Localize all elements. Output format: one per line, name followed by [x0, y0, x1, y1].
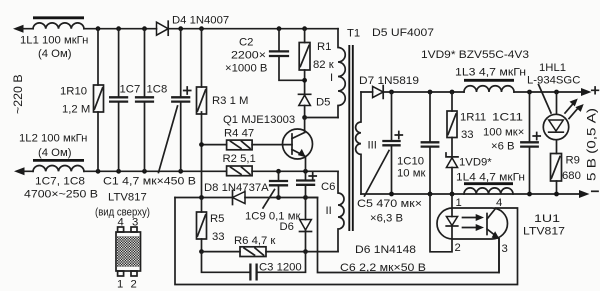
svg-text:4: 4 [496, 197, 502, 209]
capacitor C3 loop [202, 252, 306, 273]
svg-text:5 В (0,5 А): 5 В (0,5 А) [585, 108, 599, 181]
capacitor C1 [180, 29, 182, 172]
resistor R6 [240, 247, 266, 257]
svg-text:×1000 В: ×1000 В [225, 63, 267, 75]
C5 plus sign [395, 132, 402, 139]
svg-text:1L4 4,7 мкГн: 1L4 4,7 мкГн [456, 172, 525, 184]
C5 leader line [365, 151, 390, 197]
svg-text:D7 1N5819: D7 1N5819 [359, 75, 419, 87]
svg-text:D8 1N4737A: D8 1N4737A [204, 182, 269, 194]
node R5 bottom [199, 249, 204, 254]
svg-text:680: 680 [562, 170, 581, 182]
1HL1 leader line [539, 85, 552, 114]
svg-text:R1: R1 [317, 41, 331, 53]
node top of 1R10 [96, 26, 101, 31]
node 1VD9 bottom opto pin1 [450, 192, 455, 197]
svg-text:1R11: 1R11 [460, 112, 486, 124]
svg-text:D5 UF4007: D5 UF4007 [372, 27, 434, 39]
svg-text:C6: C6 [321, 181, 335, 193]
opto LED [430, 194, 452, 252]
LED 1HL1 [556, 92, 558, 154]
node D6 bottom [303, 249, 308, 254]
svg-text:R5: R5 [210, 213, 224, 225]
arrow plus output [581, 88, 592, 96]
svg-text:1L1 100 мкГн: 1L1 100 мкГн [20, 35, 88, 47]
1L1 core bar [33, 16, 84, 19]
transformer T1 winding I [338, 29, 345, 118]
svg-text:C1 4,7 мк×450 В: C1 4,7 мк×450 В [103, 176, 196, 188]
node bottom rail 1C9 top [276, 169, 281, 174]
LED arrows [565, 102, 575, 114]
svg-text:1C11: 1C11 [492, 112, 523, 124]
svg-text:D6 1N4148: D6 1N4148 [355, 244, 416, 256]
node top of R1 [302, 26, 307, 31]
wire D8 row [175, 197, 318, 199]
svg-text:×6 В: ×6 В [491, 141, 515, 153]
node R9 bottom [554, 192, 559, 197]
C6 plus sign [309, 173, 316, 180]
transformer T1 winding II [338, 171, 344, 251]
svg-text:2: 2 [131, 279, 137, 291]
svg-text:82 к: 82 к [313, 59, 334, 71]
resistor 1R11 [451, 92, 453, 156]
wire bottom mains rail left arrow [14, 167, 25, 175]
svg-text:1R10: 1R10 [60, 86, 87, 98]
svg-text:33: 33 [212, 231, 225, 243]
wire R6 row [202, 251, 339, 253]
svg-text:III: III [368, 140, 377, 152]
node R1 bottom / C2 [302, 78, 307, 83]
capacitor 1C8 [144, 29, 146, 172]
package pin 1 [118, 271, 124, 276]
svg-text:R9: R9 [566, 155, 580, 167]
wire node to winding I [305, 117, 338, 119]
capacitor 1C10 [429, 92, 431, 194]
wire C6 node to opto emitter loop [306, 198, 500, 273]
resistor R4 [202, 144, 293, 146]
svg-text:L-934SGC: L-934SGC [527, 75, 580, 87]
svg-text:1C10: 1C10 [397, 156, 424, 168]
svg-text:D5: D5 [316, 97, 330, 109]
svg-text:(4 Ом): (4 Ом) [38, 48, 72, 60]
package pin 2 [131, 271, 137, 276]
node C5 bottom [389, 192, 394, 197]
package pin 4 [118, 227, 124, 232]
C1 leader line [159, 106, 178, 173]
wire top rail D4 to T1 [168, 28, 338, 30]
svg-text:1C7: 1C7 [120, 84, 141, 96]
svg-text:(4 Ом): (4 Ом) [38, 147, 72, 159]
svg-text:1L2 100 мкГн: 1L2 100 мкГн [19, 133, 87, 145]
node bottom of 1C8 [142, 169, 147, 174]
optocoupler 1U1 body [437, 208, 508, 239]
svg-text:1VD9* BZV55C-4V3: 1VD9* BZV55C-4V3 [421, 49, 529, 61]
svg-text:3: 3 [502, 243, 508, 255]
1L3 core bar [464, 79, 514, 82]
svg-text:10 мк: 10 мк [397, 168, 425, 180]
zener 1VD9 [446, 158, 457, 168]
minus output sign [592, 190, 598, 192]
capacitor 1C11 [529, 92, 531, 194]
node top of C1 [178, 26, 183, 31]
transformer T1 core [349, 45, 353, 231]
node D8 row C6/D6 [303, 195, 308, 200]
resistor R5 [201, 198, 203, 252]
svg-text:100 мк×: 100 мк× [483, 127, 524, 139]
diode D6 [305, 198, 307, 252]
1L2 core bar [33, 159, 84, 162]
svg-text:33: 33 [461, 129, 474, 141]
svg-text:3: 3 [132, 217, 138, 229]
transistor Q1 [283, 129, 313, 159]
node 1C10 bottom [428, 192, 433, 197]
plus output sign [592, 87, 599, 94]
1C9 leader line [263, 190, 275, 209]
svg-text:C3 1200: C3 1200 [259, 262, 302, 274]
svg-text:1U1: 1U1 [534, 213, 560, 225]
inductor 1L4 [458, 193, 518, 195]
node bottom of 1R10 [96, 169, 101, 174]
wire bottom out rail [361, 193, 580, 195]
node top of C2 [277, 26, 282, 31]
svg-text:~220 В: ~220 В [11, 74, 25, 114]
node LED top [554, 90, 559, 95]
svg-text:1VD9*: 1VD9* [459, 157, 492, 169]
transformer T1 winding III [356, 92, 361, 194]
diode D4 [157, 22, 169, 35]
wire bottom rail 1L2 to R2 [23, 170, 227, 172]
svg-text:1L3 4,7 мкГн: 1L3 4,7 мкГн [455, 67, 526, 79]
svg-text:4700×~250 В: 4700×~250 В [24, 189, 98, 201]
node D5 bottom / winding I / Q1 collector [302, 115, 307, 120]
node 1C11 top [527, 90, 532, 95]
node bottom of C1 [178, 169, 183, 174]
wire top mains rail left arrow [13, 25, 24, 33]
svg-text:2200×: 2200× [231, 50, 266, 62]
svg-text:II: II [326, 205, 332, 217]
wire top rail 1L1 to D4 [22, 28, 157, 30]
package pin 3 [131, 227, 137, 232]
opto transistor [486, 214, 488, 235]
svg-text:R3 1 М: R3 1 М [212, 95, 248, 107]
svg-text:D4 1N4007: D4 1N4007 [172, 15, 229, 27]
inductor 1L3 [464, 86, 514, 92]
C1 plus sign [184, 87, 191, 94]
node bottom of 1C7 [116, 169, 121, 174]
diode D8 [233, 192, 246, 204]
node top of 1C7 [116, 26, 121, 31]
svg-text:R4 47: R4 47 [224, 128, 254, 140]
svg-text:2: 2 [455, 242, 461, 254]
svg-text:4: 4 [118, 217, 124, 229]
svg-text:×6,3 В: ×6,3 В [370, 213, 403, 225]
capacitor 1C7 [118, 29, 120, 172]
capacitor C5 [391, 92, 393, 194]
svg-text:D6: D6 [280, 221, 294, 233]
inductor 1L1 [33, 23, 84, 29]
wire frame D8 to opto collector [175, 198, 518, 285]
node top of R3 [199, 26, 204, 31]
opto light arrows [463, 217, 479, 219]
resistor R1 [304, 29, 306, 95]
wire D7 row [361, 91, 464, 93]
svg-text:I: I [330, 72, 333, 84]
capacitor 1C9 [278, 171, 280, 197]
node D8 row R5 [199, 195, 204, 200]
inductor 1L2 [33, 165, 84, 171]
node 1C11 bottom [527, 192, 532, 197]
capacitor C2 [279, 29, 305, 81]
wire bottom rail R2 to T1 [252, 170, 338, 172]
node 1R11 top [450, 90, 455, 95]
svg-text:1: 1 [456, 197, 462, 209]
1L4 core bar [464, 182, 513, 185]
1C11 plus sign [533, 133, 540, 140]
svg-text:1,2 М: 1,2 М [62, 104, 90, 116]
node 1C10 top [428, 90, 433, 95]
svg-text:1HL1: 1HL1 [539, 62, 566, 74]
node top of 1C8 [142, 26, 147, 31]
svg-text:LTV817: LTV817 [108, 192, 147, 204]
svg-text:R2 5,1: R2 5,1 [223, 153, 256, 165]
svg-text:LTV817: LTV817 [523, 226, 565, 238]
node R3/R4 junction [199, 142, 204, 147]
node C5 top [389, 90, 394, 95]
svg-text:C2: C2 [239, 37, 253, 49]
resistor 1R10 [97, 29, 99, 172]
svg-text:Q1 MJE13003: Q1 MJE13003 [223, 114, 295, 126]
svg-text:T1: T1 [347, 28, 360, 40]
svg-text:1: 1 [117, 279, 123, 291]
svg-text:1C8: 1C8 [147, 84, 168, 96]
capacitor C6 emitter [305, 171, 307, 197]
node bottom rail C6 top / Q1 emitter [303, 169, 308, 174]
svg-text:C5 470 мк×: C5 470 мк× [357, 198, 422, 210]
diode D5 [299, 95, 311, 105]
resistor R9 [551, 154, 562, 182]
svg-text:1C7, 1C8: 1C7, 1C8 [35, 176, 85, 188]
diode D7 [373, 86, 384, 97]
arrow minus output [579, 190, 590, 198]
svg-text:R6 4,7 к: R6 4,7 к [234, 235, 275, 247]
resistor R2 [227, 166, 253, 176]
node D8 row 1C9 [276, 195, 281, 200]
wire top out rail [514, 91, 582, 93]
resistor R3 [201, 29, 203, 198]
